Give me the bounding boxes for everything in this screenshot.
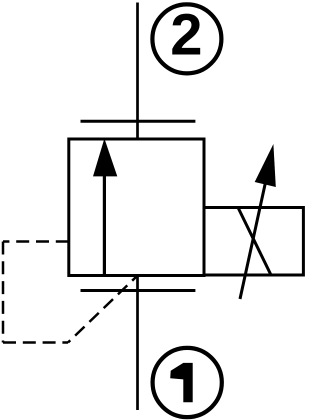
pilot line dashed bottom segment — [3, 341, 68, 344]
adjustment arrow head — [255, 144, 276, 187]
pilot line dashed top segment — [3, 240, 69, 243]
node port 2 tick — [81, 120, 196, 123]
port 1 label digit — [170, 363, 193, 402]
adjustable element box — [204, 208, 303, 276]
valve body U1 envelope — [69, 139, 204, 276]
flow arrow shaft — [103, 174, 106, 276]
flow arrow head — [93, 139, 117, 177]
diagonal slash — [238, 208, 271, 276]
wire port 2 vertical line — [136, 3, 139, 140]
pilot line dashed left segment — [2, 242, 5, 343]
port 1 circle — [153, 348, 222, 417]
pilot line dashed diagonal segment — [68, 277, 137, 343]
node port 1 tick — [81, 289, 196, 292]
svg-text:2: 2 — [170, 3, 202, 68]
wire port 1 vertical line — [136, 276, 139, 411]
adjustment arrow shaft — [240, 180, 266, 299]
port 2 circle — [152, 4, 221, 73]
